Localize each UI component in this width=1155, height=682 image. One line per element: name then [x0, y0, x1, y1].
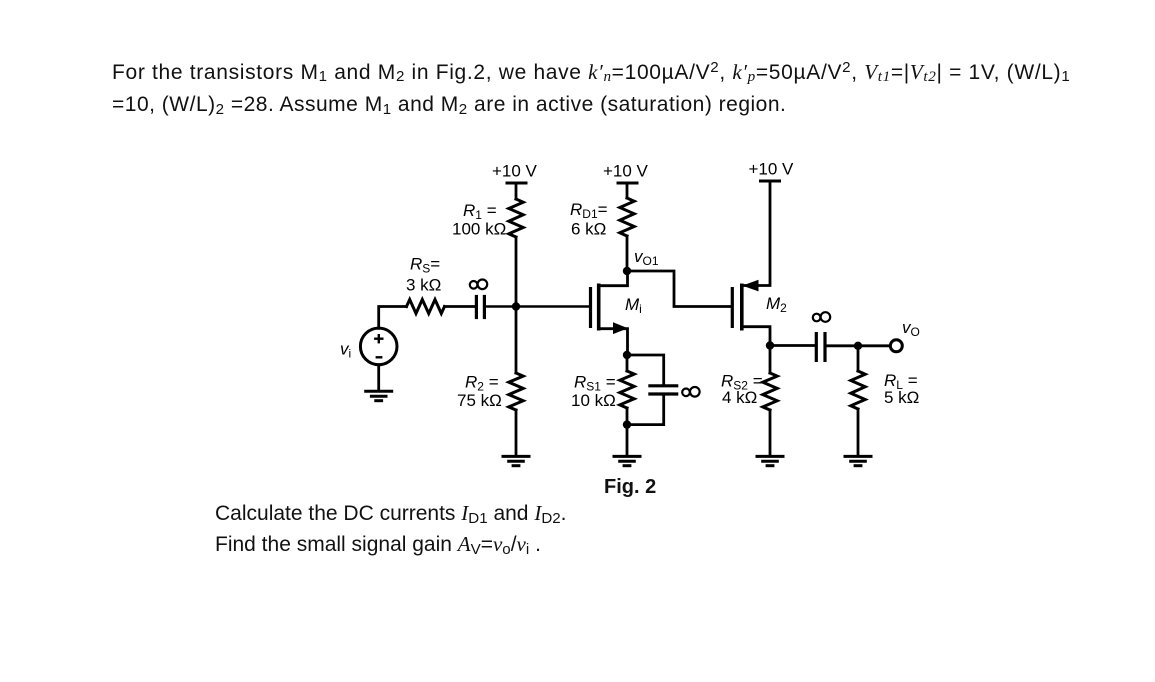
wire RD1 to node vO1: [626, 236, 629, 271]
transistor M2 gate bar: [731, 287, 734, 328]
svg-text:vi: vi: [340, 340, 351, 361]
resistor R1: [509, 199, 523, 237]
ground vi: [364, 391, 393, 401]
wire R2 to ground: [515, 410, 518, 456]
wire RS1 bottom node to ground: [626, 425, 629, 456]
resistor RS2: [763, 373, 777, 410]
node M1 source dot: [623, 351, 631, 359]
M1 source arrow: [613, 322, 628, 334]
M2 drain lead: [742, 327, 770, 346]
wire VDD2 to RD1: [626, 183, 629, 198]
resistor RS: [407, 300, 445, 314]
svg-text:Mi: Mi: [625, 295, 642, 316]
node M2 source dot: [766, 341, 774, 349]
svg-text:RS=: RS=: [410, 255, 440, 276]
svg-text:RD1=: RD1=: [570, 200, 608, 221]
svg-text:+10 V: +10 V: [603, 162, 649, 181]
wire node A to M1 gate: [516, 305, 589, 308]
ground RL: [844, 456, 873, 465]
svg-text:4 kΩ: 4 kΩ: [722, 388, 757, 407]
svg-text:100 kΩ: 100 kΩ: [452, 220, 506, 239]
svg-text:3 kΩ: 3 kΩ: [406, 276, 441, 295]
transistor M1 channel bar: [597, 284, 601, 331]
terminal vo open circle: [890, 340, 902, 352]
resistor RS1: [620, 371, 634, 408]
svg-text:vO1: vO1: [634, 247, 659, 268]
label infinity C1: [470, 280, 487, 290]
svg-text:+10 V: +10 V: [492, 162, 538, 181]
resistor RL: [851, 371, 865, 409]
label infinity C3: [682, 387, 699, 397]
wire vi to ground: [377, 365, 380, 391]
svg-text:75 kΩ: 75 kΩ: [457, 391, 502, 410]
svg-text:10 kΩ: 10 kΩ: [571, 391, 616, 410]
ground RS1: [613, 456, 642, 465]
wire M1 source to RS1: [626, 355, 629, 371]
wire RS1 to bottom node: [626, 408, 629, 425]
wire RS to C1: [445, 305, 475, 308]
supply bar VDD1: [506, 182, 528, 185]
wire M2 source node to C2: [770, 344, 815, 347]
svg-text:M2: M2: [766, 294, 787, 315]
node vo dot: [854, 342, 862, 350]
svg-text:6 kΩ: 6 kΩ: [571, 220, 606, 239]
wire R1 to node A: [515, 237, 518, 307]
vi source plus sign: [374, 334, 383, 343]
svg-text:5 kΩ: 5 kΩ: [884, 388, 919, 407]
M2 source arrow: [742, 280, 758, 292]
supply bar VDD3: [759, 180, 781, 183]
M1 drain lead: [599, 271, 628, 286]
capacitor C3 plates: [648, 384, 678, 387]
M1 source lead: [599, 329, 628, 355]
transistor M1 gate bar: [589, 287, 592, 328]
wire to bypass cap top: [627, 355, 664, 385]
svg-text:+10 V: +10 V: [749, 160, 795, 179]
wire RS2 to ground: [769, 410, 772, 456]
node RS1 bottom dot: [623, 420, 631, 428]
vi source circle: [360, 328, 397, 365]
wire vO1 to M2 gate: [627, 271, 731, 307]
svg-text:vO: vO: [902, 318, 920, 339]
resistor RD1: [620, 198, 634, 236]
label infinity C2: [813, 312, 830, 322]
wire C1 to node A: [484, 305, 516, 308]
wire bypass cap bottom: [627, 396, 664, 425]
wire RL to ground: [857, 409, 860, 456]
wire VDD1 to R1: [515, 183, 518, 199]
node vO1 dot: [623, 267, 631, 275]
vi source minus sign: [376, 356, 383, 358]
wire VDD3 to M2 source: [742, 181, 770, 286]
ground R2: [502, 456, 531, 465]
node A dot: [512, 302, 520, 310]
capacitor C1 plates: [475, 295, 478, 319]
wire RL top: [857, 346, 860, 371]
transistor M2 channel bar: [740, 284, 744, 331]
wire node vo to terminal: [858, 344, 890, 347]
capacitor C2 plates: [815, 332, 818, 362]
resistor R2: [509, 373, 523, 410]
wire node A to R2: [515, 307, 518, 373]
supply bar VDD2: [617, 182, 639, 185]
wire C2 to node vo: [825, 344, 858, 347]
wire RS2 top: [769, 346, 772, 374]
wire vi top: [379, 307, 407, 329]
figure caption: [604, 476, 656, 499]
ground RS2: [756, 456, 785, 465]
